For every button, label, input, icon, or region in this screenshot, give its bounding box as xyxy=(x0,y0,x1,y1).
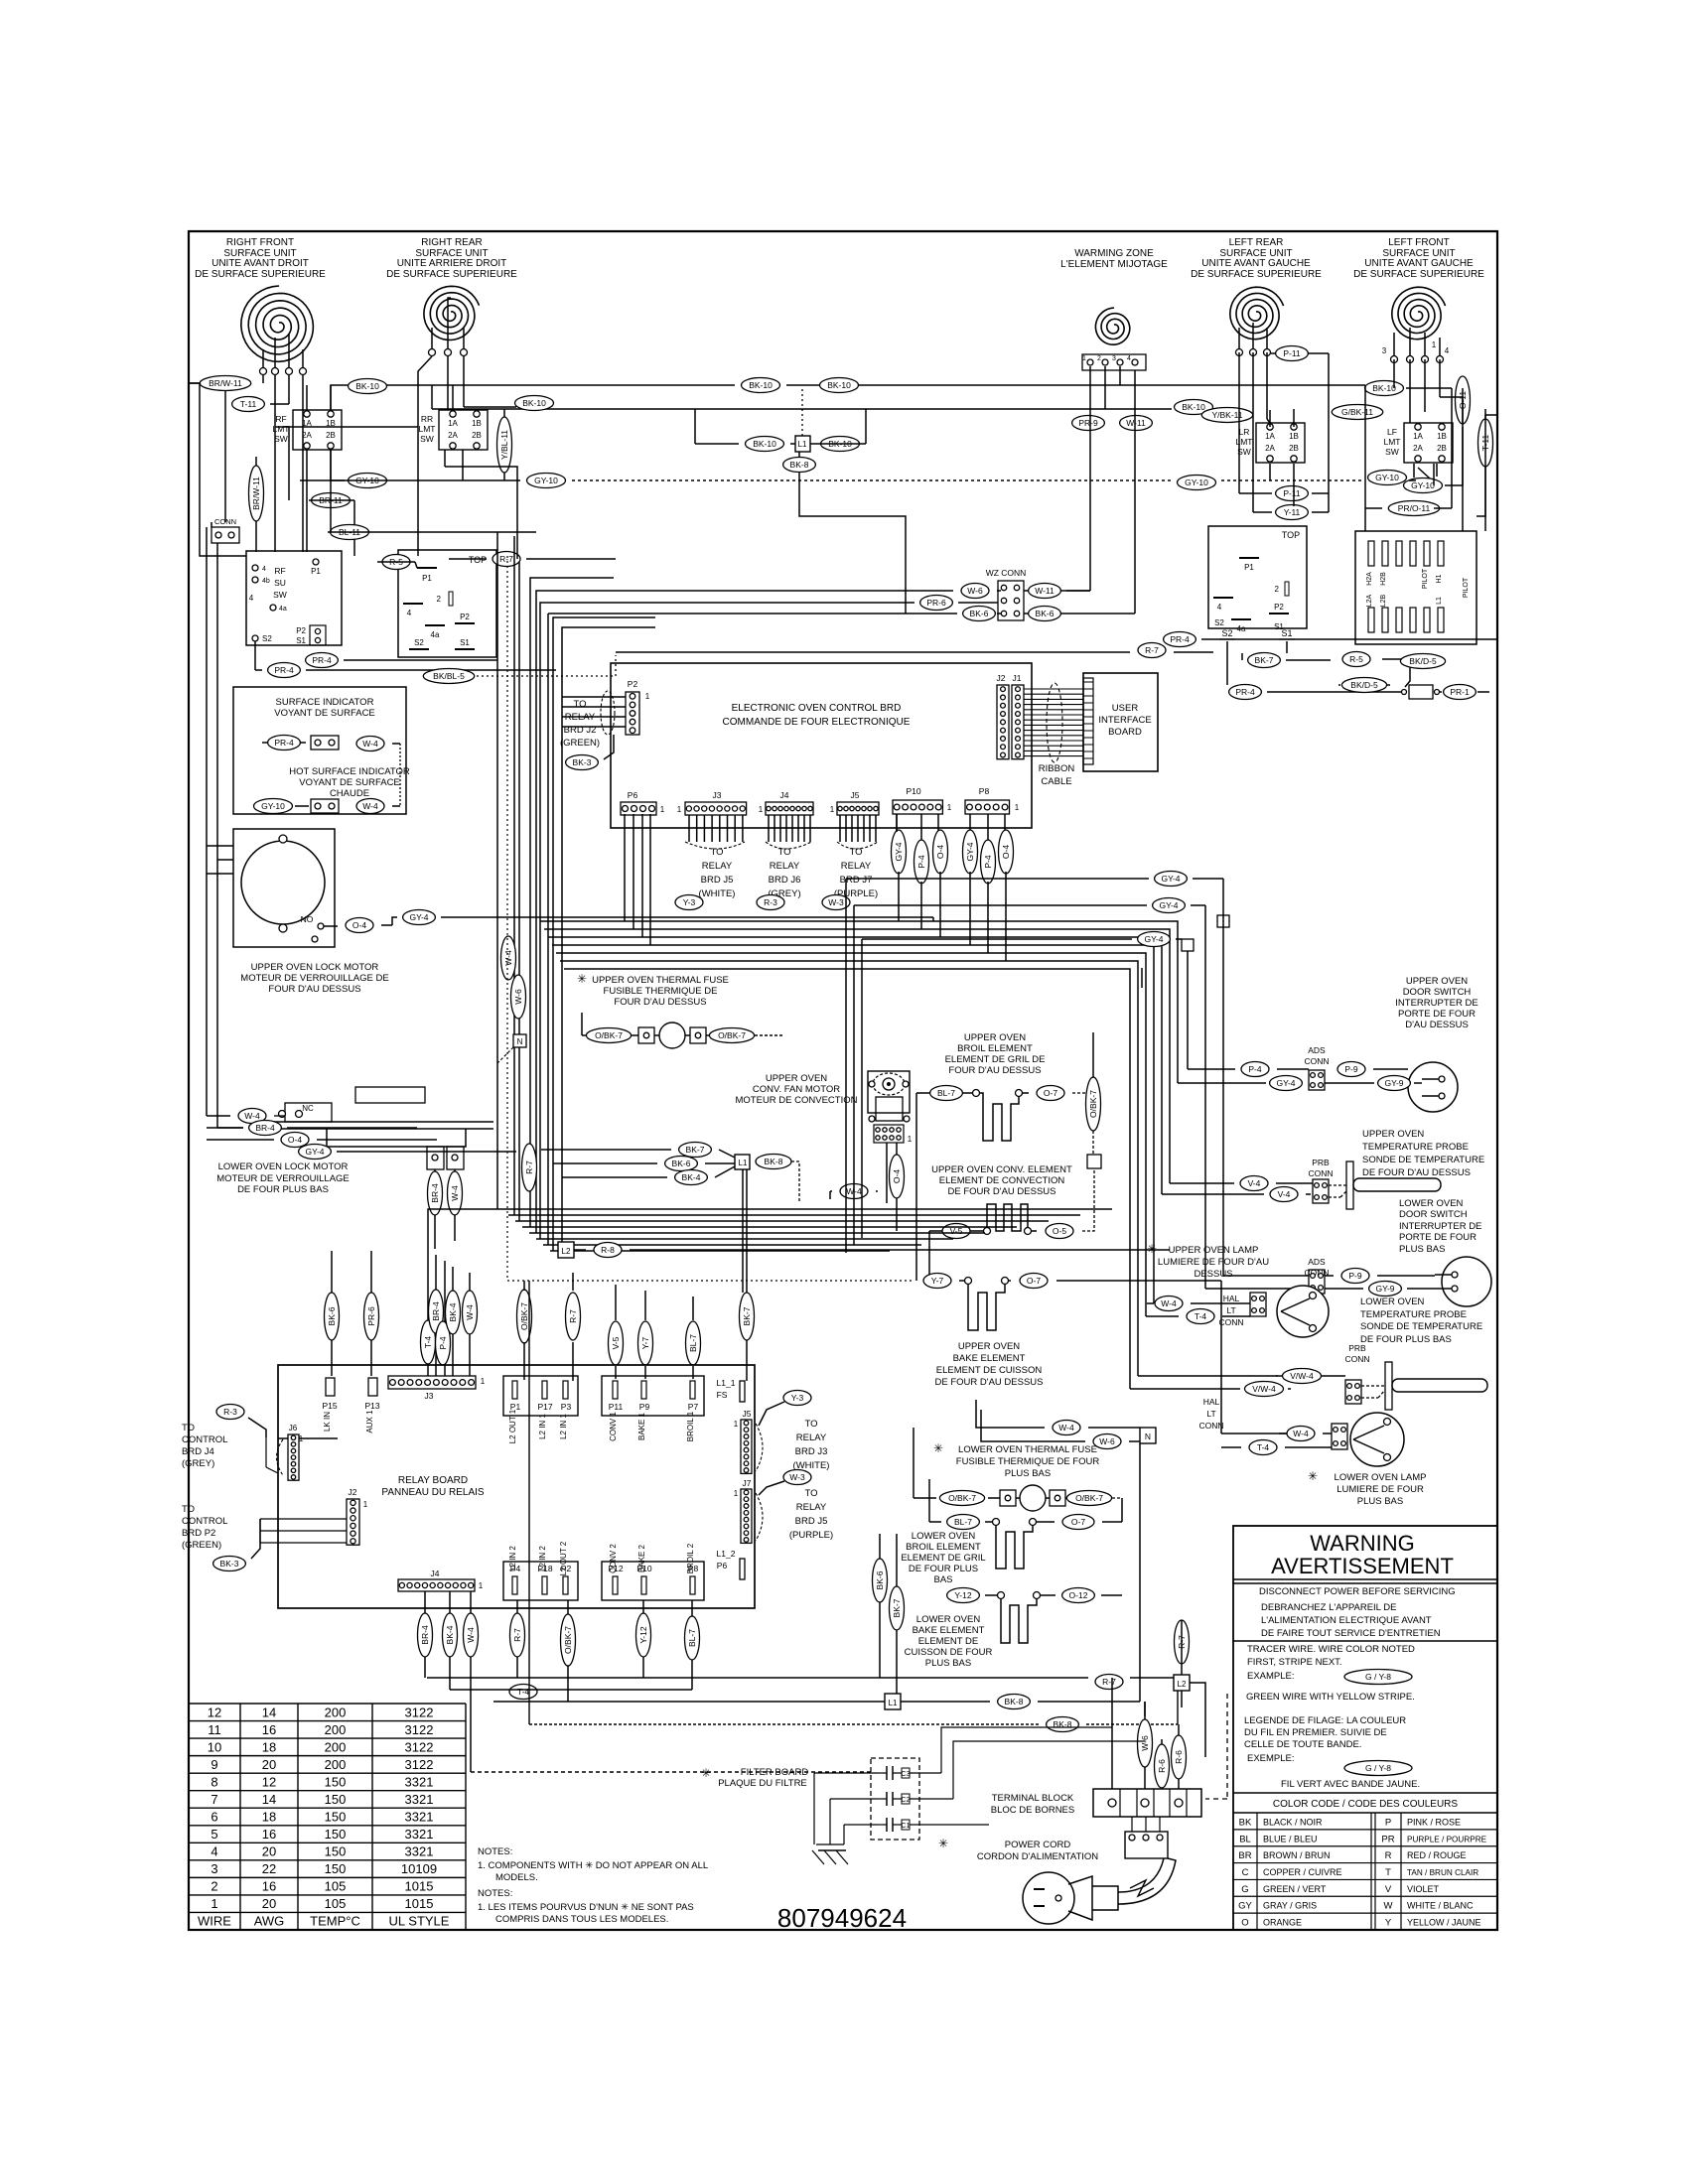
svg-text:BK-7: BK-7 xyxy=(742,1306,752,1325)
capacitor C2 xyxy=(878,1792,911,1806)
svg-text:J7: J7 xyxy=(743,1478,752,1488)
svg-text:WZ CONN: WZ CONN xyxy=(986,568,1027,578)
svg-text:✳: ✳ xyxy=(938,1837,948,1850)
svg-text:BLUE / BLEU: BLUE / BLEU xyxy=(1263,1834,1318,1843)
svg-text:R-7: R-7 xyxy=(568,1309,578,1323)
svg-text:BL-7: BL-7 xyxy=(937,1088,955,1098)
svg-text:CONN: CONN xyxy=(1198,1421,1223,1431)
wire label GY-4 p8 xyxy=(963,830,978,874)
lower broil label xyxy=(901,1531,985,1585)
svg-text:BRD J3: BRD J3 xyxy=(795,1446,828,1457)
svg-text:BAKE ELEMENT: BAKE ELEMENT xyxy=(953,1353,1026,1364)
svg-text:O-12: O-12 xyxy=(1069,1590,1088,1600)
svg-text:PR: PR xyxy=(1381,1834,1394,1844)
svg-text:DE FOUR PLUS BAS: DE FOUR PLUS BAS xyxy=(237,1184,329,1195)
fan wires xyxy=(830,1143,897,1231)
svg-text:RELAY: RELAY xyxy=(796,1433,827,1443)
svg-text:1015: 1015 xyxy=(405,1896,434,1911)
svg-text:6: 6 xyxy=(211,1810,217,1825)
P2 cable lens xyxy=(562,691,626,735)
svg-text:1: 1 xyxy=(211,1896,217,1911)
svg-text:3: 3 xyxy=(1382,346,1387,355)
svg-text:20: 20 xyxy=(262,1844,276,1859)
upper oven lock motor label xyxy=(240,962,388,995)
svg-text:P18: P18 xyxy=(537,1564,552,1573)
surface indicator box xyxy=(233,687,406,814)
svg-text:AUX 1: AUX 1 xyxy=(365,1410,374,1433)
svg-text:BROIL ELEMENT: BROIL ELEMENT xyxy=(957,1043,1033,1054)
svg-text:GY-10: GY-10 xyxy=(261,801,285,811)
connector J5 rb xyxy=(734,1409,752,1473)
RF oven TOP switch box xyxy=(398,550,496,657)
wire label T-11 xyxy=(232,397,265,412)
wire bus GY-10 xyxy=(300,479,1172,481)
label to relay brd J3 xyxy=(793,1419,830,1471)
svg-text:UPPER OVEN THERMAL FUSE: UPPER OVEN THERMAL FUSE xyxy=(592,975,729,986)
label left rear surface unit xyxy=(1191,237,1322,280)
svg-text:WIRE: WIRE xyxy=(198,1914,231,1929)
wire label O-4 left xyxy=(281,1133,309,1148)
svg-text:SW: SW xyxy=(1385,447,1399,457)
svg-text:O/BK-7: O/BK-7 xyxy=(948,1493,976,1503)
legende text 2 xyxy=(1281,1779,1420,1790)
svg-text:1: 1 xyxy=(908,1135,913,1144)
svg-text:ELEMENT DE: ELEMENT DE xyxy=(918,1636,979,1647)
wire label O-4 p8 xyxy=(999,830,1014,874)
svg-text:W-6: W-6 xyxy=(1140,1735,1150,1751)
wire brw11 vert line xyxy=(255,457,257,552)
svg-text:20: 20 xyxy=(262,1757,276,1772)
svg-text:BL-7: BL-7 xyxy=(954,1517,972,1527)
svg-text:R-5: R-5 xyxy=(1349,654,1363,664)
svg-text:ELEMENT DE GRIL: ELEMENT DE GRIL xyxy=(901,1553,985,1564)
connector P13 xyxy=(364,1378,379,1433)
svg-text:J2: J2 xyxy=(349,1487,357,1497)
svg-text:W-3: W-3 xyxy=(789,1472,805,1482)
wire bus y412 xyxy=(432,408,1172,410)
svg-text:(GREEN): (GREEN) xyxy=(560,738,600,749)
svg-text:PILOT: PILOT xyxy=(1422,568,1429,589)
svg-text:UL STYLE: UL STYLE xyxy=(389,1914,450,1929)
junction square a xyxy=(1087,1155,1101,1168)
svg-text:3: 3 xyxy=(1112,355,1116,362)
upper oven lock motor box xyxy=(233,829,335,947)
probe wires a xyxy=(1162,1183,1313,1194)
svg-text:S2: S2 xyxy=(1221,628,1232,638)
svg-text:PORTE DE FOUR: PORTE DE FOUR xyxy=(1398,1009,1476,1020)
LF coil terminals xyxy=(1382,328,1450,363)
wire label Y-12 xyxy=(947,1588,980,1603)
filter board label xyxy=(701,1766,808,1789)
svg-text:ELECTRONIC OVEN CONTROL BRD: ELECTRONIC OVEN CONTROL BRD xyxy=(732,703,902,714)
svg-text:PR-9: PR-9 xyxy=(1078,418,1098,428)
wire label T-4 hal b xyxy=(1249,1440,1277,1455)
svg-text:DOOR SWITCH: DOOR SWITCH xyxy=(1399,1209,1468,1220)
svg-text:BR-4: BR-4 xyxy=(431,1301,441,1321)
svg-text:EXAMPLE:: EXAMPLE: xyxy=(1247,1671,1295,1682)
upper oven broil element label xyxy=(945,1032,1046,1076)
left feed wires xyxy=(207,527,516,1152)
svg-text:BK-3: BK-3 xyxy=(220,1559,239,1569)
svg-text:BRD J6: BRD J6 xyxy=(769,875,801,886)
svg-text:BROWN / BRUN: BROWN / BRUN xyxy=(1263,1850,1331,1860)
svg-text:P8: P8 xyxy=(688,1564,699,1573)
wire label O/BK-7 rb xyxy=(517,1290,532,1343)
J4 cable fan xyxy=(766,815,811,849)
svg-text:UPPER OVEN LAMP: UPPER OVEN LAMP xyxy=(1169,1245,1259,1256)
LR oven TOP switch box xyxy=(1208,526,1307,633)
svg-text:BK-10: BK-10 xyxy=(827,380,851,390)
wire label O/BK-7 j4 xyxy=(561,1614,576,1666)
harness rf sw xyxy=(307,385,477,552)
wire label BK-10 a2 xyxy=(515,396,554,411)
svg-text:C1: C1 xyxy=(902,1823,911,1830)
svg-text:GY-10: GY-10 xyxy=(1185,478,1208,487)
wire label W-4 hal b xyxy=(1287,1427,1315,1441)
wire label Y/BK-11 xyxy=(1201,408,1252,423)
wire label R-6 tb2 xyxy=(1155,1744,1170,1788)
mid band buses xyxy=(501,1209,1112,1251)
connector P10 xyxy=(893,786,952,814)
svg-text:3321: 3321 xyxy=(405,1844,434,1859)
svg-text:P1: P1 xyxy=(422,574,432,583)
svg-text:CONTROL: CONTROL xyxy=(182,1434,227,1445)
wire label BK-4 l1 xyxy=(675,1170,708,1185)
llk wires xyxy=(435,1169,455,1249)
svg-text:LT: LT xyxy=(1226,1305,1235,1315)
svg-text:W-4: W-4 xyxy=(362,739,378,749)
svg-text:P2: P2 xyxy=(1274,603,1284,612)
warning rule 2 xyxy=(1233,1640,1497,1642)
page border frame xyxy=(189,231,1497,1930)
svg-text:UPPER OVEN: UPPER OVEN xyxy=(1406,976,1468,987)
svg-text:O-4: O-4 xyxy=(892,1169,902,1183)
svg-text:Y-12: Y-12 xyxy=(638,1626,648,1643)
wire label Y-11 xyxy=(1276,505,1309,520)
svg-text:20: 20 xyxy=(262,1896,276,1911)
svg-text:CELLE DE TOUTE BANDE.: CELLE DE TOUTE BANDE. xyxy=(1244,1739,1361,1750)
junction square c xyxy=(1182,939,1194,951)
svg-text:BK-7: BK-7 xyxy=(686,1145,705,1155)
svg-text:7: 7 xyxy=(211,1792,217,1807)
svg-text:807949624: 807949624 xyxy=(777,1903,907,1933)
svg-text:GRAY / GRIS: GRAY / GRIS xyxy=(1263,1901,1317,1911)
legende text xyxy=(1244,1715,1406,1764)
svg-text:O-7: O-7 xyxy=(1027,1276,1041,1286)
bake wires xyxy=(959,1280,1221,1282)
relay group box B xyxy=(602,1376,704,1416)
wire label BK-7 le xyxy=(890,1586,905,1630)
lower broil element xyxy=(993,1519,1037,1570)
svg-text:PLUS BAS: PLUS BAS xyxy=(1005,1468,1051,1479)
svg-text:LF: LF xyxy=(1387,427,1397,437)
upper temp probe xyxy=(1329,1161,1441,1209)
label to control brd J4 xyxy=(182,1423,227,1469)
svg-text:NC: NC xyxy=(302,1104,314,1113)
svg-text:T-4: T-4 xyxy=(1257,1442,1270,1452)
svg-text:16: 16 xyxy=(262,1827,276,1842)
svg-text:Y-7: Y-7 xyxy=(931,1276,944,1286)
svg-text:(WHITE): (WHITE) xyxy=(699,888,736,899)
svg-text:1: 1 xyxy=(1015,803,1020,812)
svg-text:18: 18 xyxy=(262,1739,276,1754)
wire label V-5 rb xyxy=(609,1321,624,1365)
svg-text:O/BK-7: O/BK-7 xyxy=(718,1030,746,1040)
wire label BL-7 lbroil xyxy=(947,1515,980,1530)
l2 wires xyxy=(574,1249,1170,1251)
J3 cable fan xyxy=(685,815,745,849)
svg-text:1: 1 xyxy=(1432,341,1437,349)
svg-text:DOOR SWITCH: DOOR SWITCH xyxy=(1403,987,1472,998)
wire p11 run xyxy=(1239,353,1329,512)
wire label V-5 xyxy=(942,1224,970,1239)
svg-text:W-4: W-4 xyxy=(450,1185,460,1201)
svg-text:SONDE DE TEMPERATURE: SONDE DE TEMPERATURE xyxy=(1360,1321,1482,1332)
wire label BK-3 ctl xyxy=(213,1557,246,1571)
connector P15 xyxy=(322,1378,337,1432)
svg-text:FOUR D'AU DESSUS: FOUR D'AU DESSUS xyxy=(948,1065,1041,1076)
svg-text:UNITE AVANT GAUCHE: UNITE AVANT GAUCHE xyxy=(1201,258,1311,269)
svg-text:FS: FS xyxy=(717,1390,728,1400)
wire label R-8 xyxy=(594,1243,622,1258)
svg-text:RELAY BOARD: RELAY BOARD xyxy=(398,1475,468,1486)
svg-text:LUMIERE DE FOUR D'AU: LUMIERE DE FOUR D'AU xyxy=(1158,1257,1269,1268)
bottom bus lines xyxy=(427,1678,1174,1772)
wire label BK-8 dotted xyxy=(1047,1717,1079,1732)
wire label R-5 xyxy=(382,555,410,570)
label to relay brd J6 xyxy=(768,847,800,899)
svg-text:3122: 3122 xyxy=(405,1705,434,1719)
svg-text:BRD J5: BRD J5 xyxy=(795,1516,828,1527)
wire label R-7 top xyxy=(492,552,520,567)
wire label Y-3 rb xyxy=(783,1391,811,1406)
ADS CONN label b xyxy=(1304,1257,1329,1278)
svg-text:2B: 2B xyxy=(1437,444,1447,453)
RR limit switch xyxy=(419,410,489,450)
svg-text:BLOC DE BORNES: BLOC DE BORNES xyxy=(991,1805,1074,1816)
svg-text:G / Y-8: G / Y-8 xyxy=(1365,1763,1391,1773)
wire label W-3 eoc xyxy=(822,895,850,910)
svg-text:P8: P8 xyxy=(979,786,990,796)
svg-text:W-6: W-6 xyxy=(967,586,983,596)
wire label W-6 n xyxy=(1093,1434,1121,1449)
svg-text:BK-10: BK-10 xyxy=(522,398,546,408)
wire label GY-10 left2 xyxy=(349,474,387,488)
wire bus y644 xyxy=(1201,638,1497,640)
svg-text:R-3: R-3 xyxy=(223,1407,237,1417)
svg-text:H1: H1 xyxy=(1436,574,1443,583)
harness p6 feeds xyxy=(625,814,650,945)
svg-text:W-4: W-4 xyxy=(1058,1423,1074,1433)
wire label BK-6 le xyxy=(873,1559,888,1602)
svg-text:1: 1 xyxy=(677,805,682,814)
svg-text:UPPER OVEN: UPPER OVEN xyxy=(958,1341,1020,1352)
svg-text:WARMING ZONE: WARMING ZONE xyxy=(1074,248,1154,259)
svg-text:O-7: O-7 xyxy=(1071,1517,1085,1527)
wire label T-4 rb xyxy=(421,1320,436,1364)
svg-text:TO: TO xyxy=(182,1423,195,1433)
wire label PR-4 tr xyxy=(1229,685,1262,700)
svg-text:R-7: R-7 xyxy=(1102,1677,1116,1687)
svg-text:P-4: P-4 xyxy=(916,855,926,869)
svg-text:11: 11 xyxy=(208,1722,221,1737)
svg-text:BL-7: BL-7 xyxy=(687,1629,697,1647)
svg-text:W-11: W-11 xyxy=(1126,418,1146,428)
wire label W-4 j4 xyxy=(464,1613,479,1657)
wire bus y657 xyxy=(616,651,1213,653)
wire gy10 left2 run xyxy=(331,450,345,480)
wire label P-9 ads xyxy=(1337,1062,1365,1077)
indicator wires xyxy=(262,743,400,806)
warning text en xyxy=(1259,1586,1456,1597)
below relay verticals xyxy=(425,1591,692,1772)
svg-text:Y-3: Y-3 xyxy=(683,897,696,907)
relay group box A xyxy=(503,1376,578,1416)
svg-text:BAKE ELEMENT: BAKE ELEMENT xyxy=(913,1625,985,1636)
label S1 b xyxy=(1279,628,1295,639)
svg-text:4a: 4a xyxy=(1237,624,1246,633)
svg-text:P7: P7 xyxy=(688,1402,699,1412)
svg-text:4: 4 xyxy=(1217,603,1222,612)
wire rf t2 long xyxy=(274,375,276,552)
svg-text:RIGHT FRONT: RIGHT FRONT xyxy=(226,237,294,248)
svg-text:L2B: L2B xyxy=(1380,594,1387,607)
svg-text:GY-4: GY-4 xyxy=(1159,900,1178,910)
svg-text:P9: P9 xyxy=(639,1402,650,1412)
svg-text:BK-6: BK-6 xyxy=(875,1570,885,1589)
wire label W-3 rb xyxy=(783,1470,811,1485)
svg-text:G: G xyxy=(1241,1884,1248,1895)
svg-text:DE SURFACE SUPERIEURE: DE SURFACE SUPERIEURE xyxy=(195,269,326,280)
wire label BK-10 e xyxy=(821,437,860,452)
wire top bus BK-10 xyxy=(345,384,1365,386)
svg-text:150: 150 xyxy=(325,1844,347,1859)
lower oven lamp xyxy=(1350,1413,1404,1466)
svg-text:P2: P2 xyxy=(561,1564,572,1573)
label left front surface unit xyxy=(1353,237,1484,280)
relay group D pin labels xyxy=(609,1543,695,1573)
svg-text:BK/D-5: BK/D-5 xyxy=(1409,656,1437,666)
ribbon cable label xyxy=(1039,763,1075,787)
svg-text:S1: S1 xyxy=(296,636,306,645)
svg-text:V: V xyxy=(1385,1884,1392,1895)
svg-text:3321: 3321 xyxy=(405,1827,434,1842)
wire label T-11 b xyxy=(1478,419,1493,467)
svg-text:C: C xyxy=(1242,1867,1249,1878)
svg-text:2A: 2A xyxy=(1265,444,1275,453)
svg-text:AWG: AWG xyxy=(254,1914,285,1929)
color code rule2 xyxy=(1233,1812,1497,1814)
j5 cable xyxy=(756,1402,784,1471)
svg-text:CONN: CONN xyxy=(1304,1056,1329,1066)
svg-text:1: 1 xyxy=(830,805,835,814)
svg-text:P6: P6 xyxy=(717,1561,728,1570)
user interface board xyxy=(1083,673,1158,771)
svg-text:UNITE AVANT DROIT: UNITE AVANT DROIT xyxy=(211,258,309,269)
svg-text:12: 12 xyxy=(262,1774,276,1789)
svg-text:TOP: TOP xyxy=(469,555,487,565)
svg-text:PLAQUE DU FILTRE: PLAQUE DU FILTRE xyxy=(718,1778,807,1789)
svg-text:PR/O-11: PR/O-11 xyxy=(1398,503,1431,513)
svg-text:PANNEAU DU RELAIS: PANNEAU DU RELAIS xyxy=(381,1487,485,1498)
svg-text:BK/BL-5: BK/BL-5 xyxy=(433,671,465,681)
wire label O-12 xyxy=(1062,1588,1095,1603)
svg-text:V-5: V-5 xyxy=(611,1336,621,1349)
upper oven lock motor xyxy=(241,835,325,942)
svg-text:P10: P10 xyxy=(906,786,920,796)
wire label BR-11 xyxy=(312,493,351,508)
connector J4 eoc xyxy=(759,790,813,815)
svg-text:ADS: ADS xyxy=(1308,1045,1326,1055)
svg-text:200: 200 xyxy=(325,1705,347,1719)
wire label GY-10 left xyxy=(527,474,566,488)
wire gauge table xyxy=(189,1704,466,1930)
svg-text:GY-10: GY-10 xyxy=(1411,480,1435,490)
lower oven lock motor xyxy=(259,1087,493,1169)
svg-text:COPPER / CUIVRE: COPPER / CUIVRE xyxy=(1263,1867,1342,1877)
svg-text:L'ALIMENTATION ELECTRIQUE AV: L'ALIMENTATION ELECTRIQUE AVANT xyxy=(1261,1615,1432,1626)
wire label O-7 lbroil xyxy=(1062,1515,1094,1530)
svg-text:AVERTISSEMENT: AVERTISSEMENT xyxy=(1271,1554,1454,1578)
harness rr top xyxy=(432,298,451,409)
svg-text:150: 150 xyxy=(325,1774,347,1789)
label warming zone xyxy=(1060,248,1168,270)
label to relay brd J5b xyxy=(789,1488,833,1541)
svg-text:GY-10: GY-10 xyxy=(1375,473,1399,482)
wire label GY-4 mid2 xyxy=(1153,898,1186,913)
l1 wires xyxy=(541,1150,799,1293)
ribbon cable lines xyxy=(1024,683,1083,762)
wire label O-4 p10 xyxy=(933,830,948,874)
svg-text:FIL VERT AVEC BANDE JAUNE.: FIL VERT AVEC BANDE JAUNE. xyxy=(1281,1779,1420,1790)
wire label Y-7 rb xyxy=(638,1321,653,1365)
wire label BK-10 b xyxy=(742,378,780,393)
svg-text:INTERRUPTER DE: INTERRUPTER DE xyxy=(1395,998,1477,1009)
svg-text:P1: P1 xyxy=(311,567,321,576)
svg-text:Y/BK-11: Y/BK-11 xyxy=(1211,410,1242,420)
wire rf t4 xyxy=(302,375,304,410)
svg-text:4: 4 xyxy=(1127,355,1131,362)
wire label BK/BL-5 xyxy=(423,669,474,684)
ctl wires a xyxy=(278,1434,338,1438)
wire label BK-10 g xyxy=(1365,381,1404,396)
upper oven conv element label xyxy=(931,1164,1072,1197)
svg-text:T-11: T-11 xyxy=(240,399,257,409)
svg-text:LMT: LMT xyxy=(1384,437,1401,447)
connector P2 xyxy=(626,679,650,735)
svg-text:P6: P6 xyxy=(628,790,638,800)
wire label GY-10 c xyxy=(1368,471,1407,485)
wire label PR/O-11 xyxy=(1388,501,1439,516)
svg-text:1A: 1A xyxy=(1265,432,1275,441)
L1 node mid xyxy=(735,1155,750,1169)
N node right xyxy=(1140,1428,1156,1443)
svg-text:P2: P2 xyxy=(296,626,306,635)
svg-text:O-4: O-4 xyxy=(288,1135,302,1145)
wire p11a stub xyxy=(1271,352,1313,354)
svg-text:INTERFACE: INTERFACE xyxy=(1098,715,1151,726)
wire label T-4 bus xyxy=(509,1685,537,1700)
wire label P-4 ads xyxy=(1241,1062,1269,1077)
svg-text:W-11: W-11 xyxy=(1035,586,1055,596)
L1_1 FS fuse xyxy=(717,1378,745,1402)
svg-text:R: R xyxy=(1385,1850,1392,1861)
wire label BK-8 bottom xyxy=(998,1695,1031,1709)
svg-text:2A: 2A xyxy=(1413,444,1423,453)
wire label BR-4 rb xyxy=(429,1290,444,1333)
svg-text:P15: P15 xyxy=(322,1401,337,1411)
svg-text:EXEMPLE:: EXEMPLE: xyxy=(1247,1753,1295,1764)
